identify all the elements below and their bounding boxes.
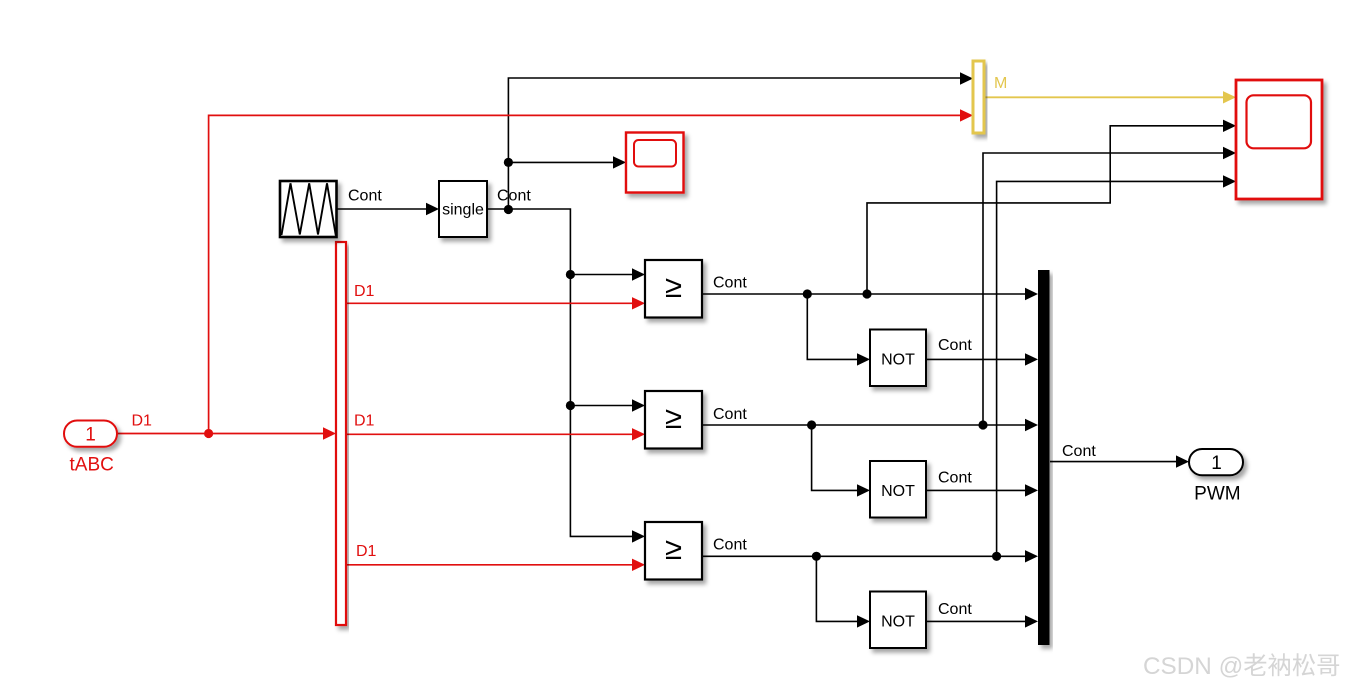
- svg-text:Cont: Cont: [713, 275, 747, 292]
- wire not3-to-mux: [926, 615, 1038, 627]
- label tABC: [70, 455, 114, 476]
- wire single-out: [487, 208, 508, 210]
- label M: [994, 75, 1007, 92]
- relational operator >= #1: [645, 260, 702, 318]
- wire relop2-to-mux: [702, 419, 1038, 431]
- node J2: [504, 158, 513, 167]
- label PWM: [1194, 484, 1240, 505]
- svg-text:1: 1: [85, 425, 96, 446]
- wire triangle-to-single: [337, 203, 439, 215]
- label Cont relop3: [713, 537, 747, 554]
- label Cont after single: [497, 188, 531, 205]
- wire J10-to-scope-in4: [997, 175, 1236, 556]
- wire inport-to-demux: [117, 427, 336, 439]
- logical operator NOT #2: [870, 461, 926, 518]
- mux black bar: [1038, 270, 1050, 645]
- svg-text:≥: ≥: [665, 269, 682, 304]
- wire J8-to-scope-in3: [983, 147, 1236, 425]
- node J8: [978, 420, 987, 429]
- logical operator NOT #1: [870, 330, 926, 387]
- node J10: [992, 552, 1001, 561]
- svg-text:D1: D1: [356, 543, 377, 560]
- svg-text:D1: D1: [354, 413, 375, 430]
- label D1 demux out2: [354, 413, 375, 430]
- svg-text:Cont: Cont: [348, 188, 382, 205]
- node J6: [862, 289, 871, 298]
- svg-text:M: M: [994, 75, 1007, 92]
- wire relop1-to-mux: [702, 288, 1038, 300]
- wire J11-to-yellowmux: [209, 109, 973, 433]
- relational operator >= #2: [645, 391, 702, 449]
- svg-text:NOT: NOT: [881, 352, 915, 369]
- wire not1-to-mux: [926, 353, 1038, 365]
- wire demux-out1: [346, 297, 645, 309]
- repeating sequence block: [280, 181, 337, 237]
- wire J1-up-to-yellowmux: [508, 72, 973, 209]
- relational operator >= #3: [645, 522, 702, 580]
- svg-text:PWM: PWM: [1194, 484, 1240, 505]
- svg-text:Cont: Cont: [497, 188, 531, 205]
- node J7: [807, 420, 816, 429]
- node J5: [803, 289, 812, 298]
- wire J1-right-down-to-relop3: [508, 209, 645, 543]
- inport tABC: [64, 421, 117, 447]
- wire J7-to-not2: [812, 425, 870, 497]
- wire mux-to-outport: [1050, 455, 1189, 467]
- label Cont not2: [938, 469, 972, 486]
- wire demux-out2: [346, 428, 645, 440]
- label D1 demux out3: [356, 543, 377, 560]
- label Cont after triangle: [348, 188, 382, 205]
- outport PWM: [1189, 449, 1243, 475]
- watermark CSDN: [1143, 653, 1340, 680]
- wire not2-to-mux: [926, 484, 1038, 496]
- wire J6-to-scope-in2: [867, 120, 1236, 294]
- wire J9-to-not3: [816, 556, 870, 627]
- data type conversion single: [439, 181, 487, 237]
- svg-text:CSDN @老衲松哥: CSDN @老衲松哥: [1143, 653, 1340, 680]
- svg-text:Cont: Cont: [713, 406, 747, 423]
- node J3: [566, 270, 575, 279]
- svg-text:D1: D1: [354, 283, 375, 300]
- svg-text:Cont: Cont: [1062, 443, 1096, 460]
- svg-text:Cont: Cont: [938, 469, 972, 486]
- svg-text:Cont: Cont: [938, 601, 972, 618]
- scope small: [626, 133, 684, 193]
- wire J5-to-not1: [807, 294, 870, 366]
- svg-text:1: 1: [1211, 453, 1222, 474]
- label Cont not1: [938, 337, 972, 354]
- svg-text:D1: D1: [132, 413, 153, 430]
- svg-text:NOT: NOT: [881, 614, 915, 631]
- label Cont mux out: [1062, 443, 1096, 460]
- logical operator NOT #3: [870, 592, 926, 649]
- node J4: [566, 401, 575, 410]
- label D1 at inport: [132, 413, 153, 430]
- node J11: [204, 429, 213, 438]
- svg-text:≥: ≥: [665, 400, 682, 435]
- wire J2-to-small-scope: [508, 156, 626, 168]
- svg-text:≥: ≥: [665, 531, 682, 566]
- node J1: [504, 205, 513, 214]
- wire relop3-to-mux: [702, 550, 1038, 562]
- demux D1 bar: [336, 242, 346, 625]
- label Cont relop2: [713, 406, 747, 423]
- label D1 demux out1: [354, 283, 375, 300]
- svg-text:NOT: NOT: [881, 483, 915, 500]
- svg-text:tABC: tABC: [70, 455, 114, 476]
- label Cont not3: [938, 601, 972, 618]
- wire J3-to-relop1: [570, 268, 645, 280]
- wire J4-to-relop2: [570, 399, 645, 411]
- svg-text:Cont: Cont: [938, 337, 972, 354]
- wire yellowmux-to-scope: [984, 91, 1236, 103]
- svg-text:single: single: [442, 202, 484, 219]
- scope big: [1236, 80, 1322, 199]
- mux yellow M: [973, 61, 984, 133]
- svg-text:Cont: Cont: [713, 537, 747, 554]
- wire demux-out3: [346, 559, 645, 571]
- label Cont relop1: [713, 275, 747, 292]
- node J9: [812, 552, 821, 561]
